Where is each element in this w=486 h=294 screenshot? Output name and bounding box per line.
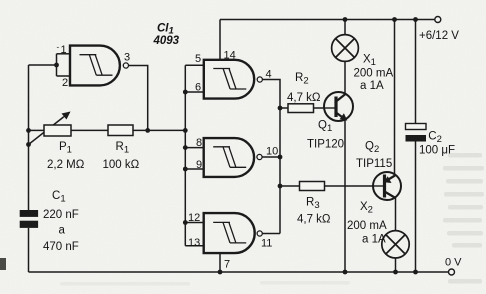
svg-text:12: 12 xyxy=(188,212,200,224)
svg-text:14: 14 xyxy=(224,50,236,62)
svg-text:4,7 kΩ: 4,7 kΩ xyxy=(287,92,321,104)
svg-text:a 1A: a 1A xyxy=(362,234,386,246)
svg-text:200 mA: 200 mA xyxy=(347,220,387,232)
svg-text:-: - xyxy=(57,43,60,52)
svg-text:0 V: 0 V xyxy=(445,257,462,269)
svg-text:1: 1 xyxy=(61,44,67,56)
svg-text:TIP115: TIP115 xyxy=(356,158,392,170)
svg-text:470 nF: 470 nF xyxy=(43,241,79,253)
svg-text:4093: 4093 xyxy=(153,35,180,47)
svg-text:4,7 kΩ: 4,7 kΩ xyxy=(297,214,331,226)
svg-text:10: 10 xyxy=(266,146,278,158)
svg-text:TIP120: TIP120 xyxy=(307,139,344,151)
svg-text:3: 3 xyxy=(124,52,130,64)
svg-text:7: 7 xyxy=(224,259,230,271)
svg-text:100 kΩ: 100 kΩ xyxy=(103,159,140,171)
svg-text:11: 11 xyxy=(261,238,272,250)
svg-text:+6/12 V: +6/12 V xyxy=(419,30,459,42)
svg-text:8: 8 xyxy=(196,137,202,149)
svg-text:220 nF: 220 nF xyxy=(43,209,79,221)
svg-text:6: 6 xyxy=(195,82,201,94)
svg-text:100 μF: 100 μF xyxy=(419,145,455,157)
svg-text:a: a xyxy=(59,225,66,237)
svg-text:2: 2 xyxy=(62,77,68,89)
svg-text:9: 9 xyxy=(196,159,202,171)
svg-text:a 1A: a 1A xyxy=(360,80,384,92)
svg-text:2,2 MΩ: 2,2 MΩ xyxy=(47,159,85,171)
svg-text:4: 4 xyxy=(266,69,272,81)
svg-text:200 mA: 200 mA xyxy=(354,68,394,80)
svg-text:5: 5 xyxy=(195,53,201,65)
svg-text:13: 13 xyxy=(188,237,200,249)
